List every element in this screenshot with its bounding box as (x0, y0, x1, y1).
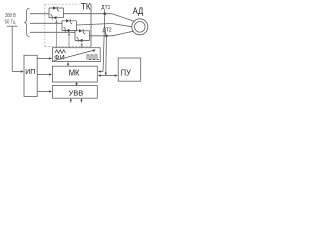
svg-text:ИП: ИП (25, 67, 35, 76)
svg-text:ФИ: ФИ (54, 54, 65, 61)
svg-text:50 Гц: 50 Гц (5, 19, 16, 25)
svg-text:ТК: ТК (81, 2, 91, 12)
svg-text:ПУ: ПУ (121, 68, 132, 77)
svg-text:УВВ: УВВ (69, 89, 84, 98)
svg-text:380 В: 380 В (5, 13, 16, 19)
svg-text:МК: МК (69, 69, 80, 78)
svg-text:ДТ2: ДТ2 (103, 27, 112, 33)
svg-text:ДТ1: ДТ1 (101, 5, 110, 11)
svg-text:АД: АД (133, 5, 144, 16)
